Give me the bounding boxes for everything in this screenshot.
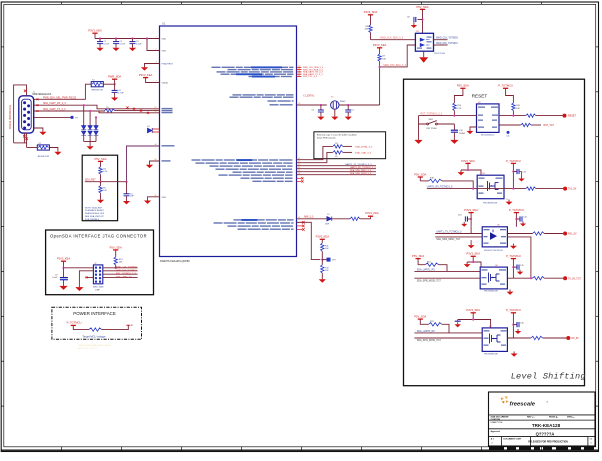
LS4 power flag P5V_SDA: [414, 315, 426, 320]
title block line4: [489, 436, 596, 438]
wire to R7: [379, 48, 381, 54]
svg-text:NMI_3_3: NMI_3_3: [304, 217, 314, 219]
svg-text:34: 34: [298, 75, 300, 77]
U2 reset IC body: [477, 104, 500, 132]
LS3 output resistor R22: [533, 277, 545, 280]
svg-text:TX_5V_TGT: TX_5V_TGT: [568, 278, 581, 280]
diode common rail: [84, 141, 96, 143]
svg-text:10K: 10K: [119, 262, 123, 264]
LS4 input wires: [414, 332, 482, 334]
svg-text:RX1_5V: RX1_5V: [568, 234, 577, 236]
svg-text:P3V3_SDA: P3V3_SDA: [464, 208, 478, 212]
LS4 wire PTGT down: [512, 313, 514, 338]
svg-text:P3V3_KEA: P3V3_KEA: [88, 28, 102, 32]
LS2 gnd under C14: [520, 222, 526, 227]
LS1 pin texts: [479, 178, 485, 179]
reset divider box: [82, 155, 117, 221]
LS1 gnd under C12: [521, 172, 523, 177]
svg-text:P5V_SDA: P5V_SDA: [94, 157, 106, 161]
bottom heavy dashes under title block: [489, 447, 594, 450]
testpoint dot TP2: [70, 116, 73, 119]
svg-text:P_TGTMCU: P_TGTMCU: [506, 159, 521, 163]
LS2 power flag P3V3_SDA: [464, 208, 478, 213]
svg-text:7: 7: [155, 81, 156, 83]
LS1 wire to terminal: [536, 188, 563, 190]
title block outer: [489, 392, 596, 446]
svg-text:SDA_UART_TX_3_3: SDA_UART_TX_3_3: [43, 108, 66, 111]
svg-text:VDD: VDD: [162, 39, 167, 41]
wire R13 to header wire: [115, 265, 117, 268]
wire to R11: [321, 239, 323, 243]
svg-text:1 1: 1 1: [590, 439, 593, 441]
svg-text:RELEASED FOR PRD PRODUCTION: RELEASED FOR PRD PRODUCTION: [528, 440, 568, 443]
LS2 wire into box top-left: [470, 227, 472, 234]
LS3 wire + arrow: [467, 256, 473, 262]
LS2 lower output down wire: [507, 237, 531, 278]
header right wires: [103, 267, 138, 269]
svg-text:Level Shifting: Level Shifting: [511, 372, 586, 382]
wire P3V3 to rail: [94, 33, 96, 38]
svg-text:SWD_DIO_TGTMCU: SWD_DIO_TGTMCU: [436, 43, 458, 45]
svg-text:IS ALWAYS RESET: IS ALWAYS RESET: [85, 209, 105, 212]
LS1 red arrow gnd: [458, 170, 465, 175]
svg-text:SDA_SPI0_MISO_TGT: SDA_SPI0_MISO_TGT: [436, 238, 461, 241]
resistor R15: [512, 103, 515, 111]
svg-text:P3V3_SDA: P3V3_SDA: [466, 252, 480, 256]
U1 pin name RESET: [162, 145, 175, 146]
no-connect x bottom2: [25, 138, 28, 141]
ferrite FB1: [89, 328, 102, 331]
LS3 input wires: [414, 270, 480, 272]
svg-text:3: 3: [155, 62, 156, 64]
svg-text:P_TGTMCU: P_TGTMCU: [509, 208, 524, 212]
svg-text:XTAL_EXTAL_3_3: XTAL_EXTAL_3_3: [355, 145, 373, 148]
wire power interface: [73, 325, 89, 329]
DB9 connector J1 outer: [19, 96, 34, 133]
svg-text:P_TGTMCU: P_TGTMCU: [506, 308, 521, 312]
LS2 input wires: [435, 233, 482, 235]
LS4 wire + arrow: [458, 313, 474, 320]
wire to R6: [370, 15, 372, 25]
svg-text:SDA_SPI0_MISO_3_3: SDA_SPI0_MISO_3_3: [350, 169, 372, 172]
svg-text:RST_TGTMCU_3_3: RST_TGTMCU_3_3: [421, 113, 443, 116]
LS1 left wire + resistor R18: [419, 177, 421, 181]
note resistor R8: [333, 145, 343, 148]
svg-text:41: 41: [298, 158, 300, 160]
svg-text:DOCUMENT CONT: DOCUMENT CONT: [504, 439, 523, 441]
svg-text:RS232 INTERFACE: RS232 INTERFACE: [8, 105, 12, 129]
LS4 capacitor C16: [512, 324, 514, 326]
wire to R-shell resistor: [27, 147, 38, 149]
resistor R5: [100, 182, 102, 186]
svg-text:P3V3_KEA: P3V3_KEA: [139, 73, 153, 77]
power flag P3V3_KEA at U1 pin 7: [139, 73, 153, 78]
svg-text:UART1_RX_TGTMCU_5: UART1_RX_TGTMCU_5: [427, 185, 453, 188]
U1 right row wires 3-6: [297, 165, 377, 167]
resistor R4: [99, 167, 102, 174]
capacitor C2: [115, 39, 117, 42]
capacitor C8 at comparator: [421, 18, 423, 20]
svg-text:39: 39: [154, 159, 156, 161]
power flag P3V3_SDA: [364, 10, 378, 15]
svg-text:OpenSDA INTERFACE JTAG CONNECT: OpenSDA INTERFACE JTAG CONNECTOR: [50, 233, 147, 238]
ground under R5: [100, 193, 102, 197]
title block line1: [489, 414, 596, 416]
capacitor C10: [453, 124, 455, 130]
svg-text:FOR DETAILS: FOR DETAILS: [85, 218, 100, 221]
U1 RESET pin wire: [127, 146, 160, 182]
border zone ticks left: [1, 47, 4, 406]
LS4 power flag P3V3_SDA: [466, 308, 480, 313]
svg-text:44: 44: [298, 167, 300, 169]
svg-text:SDA_UART1_RX: SDA_UART1_RX: [417, 268, 435, 271]
U1 pin names RS232 group: [162, 108, 173, 109]
junction divider: [99, 181, 101, 183]
svg-text:OPEN-SDA SERIAL AND DEBUG: OPEN-SDA SERIAL AND DEBUG: [78, 344, 111, 347]
svg-text:4.7K: 4.7K: [457, 108, 462, 110]
svg-text:P5V_SDA: P5V_SDA: [416, 5, 428, 9]
wire RS232 pin9 PWR_SDA_SEL: [34, 84, 91, 99]
svg-text:VSS: VSS: [162, 197, 167, 199]
svg-text:P3V3_SDA: P3V3_SDA: [461, 159, 475, 163]
svg-text:P5V_SDA: P5V_SDA: [412, 254, 424, 258]
net tick marks on RS232 wires: [126, 107, 128, 109]
resistor R10: [350, 217, 360, 220]
JTAG header J2 body: [93, 265, 102, 284]
capacitor C5: [126, 182, 128, 194]
svg-text:SWD JTAG: SWD JTAG: [93, 286, 104, 289]
junction rail-branch: [146, 37, 148, 39]
power flag P5V_SDA above junction: [108, 74, 121, 79]
MCU U1 body: [160, 26, 297, 257]
U1 pin gnd wire y161: [150, 161, 160, 163]
left xtal cap C6: [320, 104, 322, 106]
resistor R14: [453, 103, 456, 111]
svg-text:DNP: DNP: [325, 224, 330, 226]
resistor R11: [321, 243, 324, 251]
svg-text:P5V_SDA: P5V_SDA: [414, 315, 426, 319]
svg-text:P_TGTMCU: P_TGTMCU: [498, 84, 513, 88]
comparator U3 body: [415, 33, 433, 51]
LS2 power flag P_TGTMCU: [509, 208, 524, 213]
wire RS232 spare with testpoint: [34, 116, 71, 118]
POWER INTERFACE dashed box: [52, 307, 142, 339]
DB9 connector J1 inner: [22, 99, 32, 130]
LS4 gnd under C16: [515, 329, 521, 334]
right rows 7-8 no-connect stubs: [297, 177, 302, 179]
svg-text:P_TGTMCU: P_TGTMCU: [506, 254, 521, 258]
U2 pin texts: [478, 107, 485, 108]
ground under DB9: [34, 128, 43, 130]
note resistor R9: [333, 151, 343, 154]
svg-text:Approved: Approved: [491, 430, 501, 433]
LS4 gnd under box: [511, 351, 518, 356]
svg-text:DNP: DNP: [95, 290, 100, 292]
wire P3V3 to pin 7: [146, 78, 160, 83]
svg-text:P3V3_KEA: P3V3_KEA: [373, 43, 387, 47]
power flag P5V_SDA in OpenSDA: [110, 245, 122, 250]
wire P3V3 to header: [64, 261, 94, 268]
LS3 power flag P_TGTMCU: [506, 254, 521, 259]
wire shell bottom run: [14, 142, 27, 144]
svg-text:RST PUSH: RST PUSH: [427, 128, 438, 130]
svg-text:RESISTOR: RESISTOR: [92, 90, 104, 92]
P stub mark: [126, 324, 130, 326]
svg-text:™: ™: [546, 401, 548, 404]
ground under U2 left: [470, 127, 477, 129]
U1 pin text group A: [212, 67, 294, 68]
LS4 MOSFET box: [482, 328, 507, 352]
ground under C5: [126, 196, 128, 199]
svg-text:MC34064SD-5: MC34064SD-5: [481, 135, 495, 137]
LS3 mosfet symbol: [489, 273, 500, 283]
diode pair at x=90.1: [88, 126, 93, 142]
junction rail-C2: [115, 37, 117, 39]
svg-text:SDA_UART_RX_3_3: SDA_UART_RX_3_3: [43, 102, 66, 105]
svg-text:0.2: 0.2: [532, 417, 535, 419]
svg-text:ADAPTER CIRCUIT: ADAPTER CIRCUIT: [78, 347, 98, 350]
diode D5: [327, 216, 332, 221]
JTAG header pins: [95, 267, 101, 283]
U1 pin D4 diode wires: [153, 128, 160, 130]
svg-text:P5V_SDA: P5V_SDA: [110, 245, 122, 249]
svg-text:P5V_SDA: P5V_SDA: [457, 84, 469, 88]
diode pair at x=96: [94, 126, 99, 142]
svg-text:46: 46: [298, 173, 300, 175]
power flag P3V3_KEA at NMI: [365, 211, 379, 216]
wire D5 to R10: [332, 218, 350, 220]
LS1 power flag P3V3_SDA: [461, 159, 475, 164]
svg-text:P3V3_SDA: P3V3_SDA: [466, 308, 480, 312]
wire SWD_DIO jog: [380, 45, 416, 67]
LS1 MOSFET box: [477, 175, 504, 199]
svg-text:45: 45: [298, 170, 300, 172]
wire R17 label: [531, 124, 541, 126]
no-connect x bottom1: [23, 135, 26, 138]
LS2 capacitor C14: [515, 218, 517, 220]
LS4 output wire: [507, 337, 531, 339]
svg-text:SWD_DIO_TGTMCU: SWD_DIO_TGTMCU: [116, 270, 137, 272]
wire P5V to R14: [454, 88, 463, 103]
LS4 terminal: [566, 336, 570, 340]
svg-text:External caps in case the buff: External caps in case the buffer oscilla…: [317, 133, 357, 136]
LS2 pin texts: [484, 229, 490, 230]
right xtal cap C7: [347, 104, 349, 106]
LS2 terminal: [563, 232, 567, 236]
svg-text:KINETIS KEA128 LQFP80: KINETIS KEA128 LQFP80: [160, 260, 190, 263]
svg-text:RST_TGTMCU_3_3: RST_TGTMCU_3_3: [116, 273, 137, 275]
border zone ticks top: [62, 2, 542, 4]
wire R4 to junction: [100, 174, 102, 182]
TVS diode D2 wire: [89, 111, 91, 126]
capacitor C4 below junction: [114, 84, 116, 90]
U1 BKGD wire: [297, 222, 321, 259]
svg-text:0.1UF: 0.1UF: [103, 44, 109, 46]
svg-text:SWD_CLK_SDA_3_3: SWD_CLK_SDA_3_3: [380, 37, 404, 40]
svg-text:PTA5/TRST: PTA5/TRST: [162, 63, 174, 66]
ground under diodes: [89, 142, 91, 145]
junction rail-C1: [99, 37, 101, 39]
power flag P5V_SDA reset: [457, 84, 469, 89]
LS2 wire down gnds: [470, 240, 472, 243]
comparator buffers: [420, 38, 425, 48]
svg-text:TRK-KEA128: TRK-KEA128: [532, 423, 561, 428]
ground under C10: [453, 132, 455, 137]
svg-text:P3V3_SDA: P3V3_SDA: [364, 10, 378, 14]
header left stub: [85, 276, 93, 278]
svg-text:1: 1: [155, 37, 156, 39]
LS1 terminal: [563, 187, 567, 191]
LS4 wire to box: [473, 320, 490, 328]
wire R1 to junction: [103, 83, 114, 85]
wire DB9 shell bottom stub: [23, 133, 25, 143]
no-connect pins: [297, 221, 303, 223]
capacitor C3: [132, 39, 134, 42]
svg-text:40: 40: [154, 144, 156, 146]
U1 NMI wire: [297, 218, 327, 220]
LS3 wire PTGT down: [512, 259, 514, 279]
svg-text:UART1_TX_TGTMCU_3_3: UART1_TX_TGTMCU_3_3: [345, 163, 372, 166]
svg-text:P_TGTMCU: P_TGTMCU: [67, 321, 82, 325]
svg-text:4.7UF: 4.7UF: [118, 92, 124, 94]
svg-text:PWR_SDA_SEL_PWR_RS232: PWR_SDA_SEL_PWR_RS232: [43, 96, 77, 99]
reset output wire: [499, 115, 526, 117]
svg-text:Target MCU voltage: Target MCU voltage: [83, 334, 106, 338]
DB9 pins: [23, 101, 30, 129]
power flag P3V3_KEA in OpenSDA: [57, 257, 71, 262]
wire R7 to SWD_DIO node: [379, 61, 381, 67]
wire RS232 RX: [34, 105, 160, 109]
ground under comparator: [423, 51, 425, 57]
power flag P5V_SDA divider: [94, 157, 106, 162]
LS2 output resistor R20: [533, 232, 545, 235]
note box: [314, 132, 386, 159]
svg-text:WHEN SDA IS OFF: WHEN SDA IS OFF: [85, 212, 105, 215]
svg-text:Y1_EXTAL: Y1_EXTAL: [303, 95, 315, 98]
ground under C3: [132, 44, 134, 46]
LS2 buffer triangle: [490, 232, 497, 240]
U1 pin text group E: [234, 219, 294, 220]
ground under C4: [114, 92, 116, 95]
LS1 wire to arrow: [461, 163, 468, 170]
header left gnd wire: [79, 271, 93, 285]
LS2 wire to terminal: [544, 233, 563, 235]
power flag P_TGTMCU reset: [498, 84, 513, 89]
svg-text:P3V3_KEA: P3V3_KEA: [316, 235, 330, 239]
wire R2 to ground: [49, 148, 58, 150]
LS2 wire down left: [470, 213, 472, 227]
svg-text:PWR_SDA: PWR_SDA: [108, 74, 121, 78]
wire SWD_CLK to comparator: [371, 39, 416, 41]
svg-text:4.7K: 4.7K: [103, 171, 108, 173]
comparator output wires: [434, 39, 448, 41]
capacitor C9: [63, 268, 65, 277]
svg-text:future EVB variants: future EVB variants: [317, 136, 337, 139]
wire R10 to power: [360, 218, 371, 220]
svg-text:SDA_SPI1_MOSI_TGT: SDA_SPI1_MOSI_TGT: [417, 339, 442, 342]
power flag P5V_SDA comparator: [416, 5, 428, 10]
TVS diode D1: [83, 105, 85, 125]
svg-text:0: 0: [591, 443, 592, 445]
LS1 long wire: [427, 188, 526, 190]
svg-text:VDDA: VDDA: [162, 82, 169, 85]
svg-text:55: 55: [154, 195, 156, 197]
wire VSS branch: [147, 39, 160, 51]
svg-text:SDA_UART2_RX: SDA_UART2_RX: [417, 330, 435, 333]
LS2 wire down right: [515, 213, 517, 227]
svg-text:0.1UF: 0.1UF: [136, 44, 142, 46]
level shifting box: [404, 79, 585, 386]
resistor R16: [526, 114, 536, 117]
LS1 output resistor R19: [526, 187, 536, 190]
LS3 pin texts: [482, 269, 488, 270]
svg-text:RESISTOR: RESISTOR: [38, 156, 50, 158]
U1 right SWD/UART stub wires: [297, 66, 302, 68]
svg-text:SWD_CLK_TGTMCU: SWD_CLK_TGTMCU: [116, 267, 138, 269]
LS3 gnd under C15: [520, 266, 522, 268]
svg-text:CUSTOM: CUSTOM: [491, 419, 501, 421]
testpoint TP1: [322, 259, 326, 261]
wire RS232 TX with series resistor: [34, 110, 105, 112]
wire DB9 shell top: [14, 85, 27, 143]
wire SW1 to junction: [437, 123, 454, 125]
svg-text:no: no: [573, 417, 575, 419]
wire PTGT to R15: [506, 88, 514, 103]
wire R14 to rst wire: [453, 111, 455, 116]
U1 pin 3 ground wire: [145, 64, 160, 66]
LS3 power flag P5V_SDA: [412, 254, 424, 259]
svg-text:SDA_SPI0_MOSI_3_3: SDA_SPI0_MOSI_3_3: [350, 172, 372, 175]
junction at C5: [125, 181, 127, 183]
svg-text:SDA_UART_TX: SDA_UART_TX: [116, 275, 132, 278]
title block line2: [489, 419, 596, 421]
svg-text:SEE SDA CIRCUIT: SEE SDA CIRCUIT: [85, 215, 105, 218]
svg-text:RST_TGT_3_3: RST_TGT_3_3: [303, 76, 318, 78]
svg-text:RESET: RESET: [568, 115, 577, 118]
LS1 capacitor C12: [512, 170, 514, 172]
power flag P3V3_KEA BKGD: [316, 235, 330, 240]
wire P5V to comparator top: [422, 9, 424, 33]
svg-text:2: 2: [155, 49, 156, 51]
ground under C1: [99, 44, 101, 46]
svg-text:DRAW TITLE: DRAW TITLE: [491, 421, 504, 424]
testpoint dot U2: [507, 131, 510, 134]
LS4 left resistor R23: [420, 319, 428, 324]
svg-text:P3V3_KEA: P3V3_KEA: [57, 257, 71, 261]
reset input wire: [419, 115, 477, 117]
svg-text:0.1UF: 0.1UF: [119, 44, 125, 46]
LS3 left resistor R21: [418, 259, 425, 265]
border zone ticks bottom: [62, 447, 542, 452]
LS3 terminal: [563, 276, 567, 280]
U1 pin gnd wire y196.8: [148, 197, 160, 199]
LS2 buffer box: [482, 227, 507, 247]
resistor R2 box: [37, 145, 49, 150]
LS3 wire to box: [473, 262, 481, 267]
svg-text:NOTE: SDA_RST: NOTE: SDA_RST: [85, 206, 103, 209]
LS1 wire to box top: [468, 170, 481, 175]
svg-text:62: 62: [298, 217, 300, 219]
resistor R13: [114, 257, 117, 265]
power flag P3V3_KEA top-left: [88, 28, 102, 33]
svg-text:0.1uF: 0.1uF: [52, 277, 58, 279]
ground under C8: [413, 19, 414, 21]
LS3 wire to terminal: [544, 277, 563, 279]
ground under R12: [321, 273, 323, 277]
U1 pin text crystal: [268, 100, 294, 101]
svg-text:100NF: 100NF: [459, 133, 466, 135]
svg-text:U1: U1: [162, 21, 166, 25]
